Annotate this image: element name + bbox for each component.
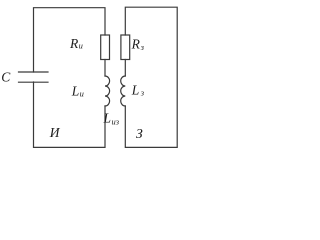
svg-text:з: з: [140, 42, 145, 52]
svg-text:L: L: [103, 111, 112, 126]
svg-text:и: и: [79, 41, 83, 51]
svg-text:И: И: [49, 125, 61, 140]
svg-text:R: R: [131, 36, 141, 51]
svg-text:C: C: [1, 70, 11, 85]
svg-text:из: из: [112, 117, 120, 127]
svg-text:R: R: [69, 36, 79, 51]
svg-text:L: L: [131, 83, 140, 98]
svg-text:з: з: [140, 88, 145, 98]
svg-text:L: L: [71, 83, 80, 98]
svg-text:З: З: [136, 126, 143, 141]
svg-text:и: и: [80, 89, 84, 99]
